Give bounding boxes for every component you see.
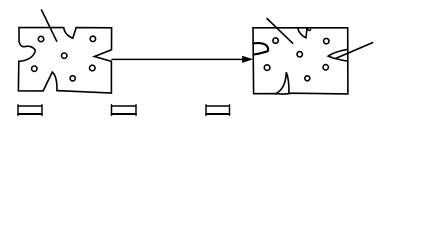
hole A6: [70, 76, 75, 81]
slice B bottom fin: [276, 72, 289, 94]
hole B1: [273, 38, 278, 43]
hole A4: [32, 66, 37, 71]
arrow head: [242, 56, 253, 63]
legend box 2: [112, 105, 137, 115]
cheese slice A outline: [18, 28, 111, 93]
legend box 1: [18, 105, 42, 115]
slice B right-edge notch: [328, 49, 348, 61]
slice B top notch: [298, 28, 307, 38]
hole B4: [264, 65, 270, 71]
hole B2: [324, 38, 329, 43]
cheese slice B outline (continuous rectangle): [253, 28, 348, 94]
hole B3: [297, 52, 302, 57]
hole A5: [90, 65, 96, 71]
hole A3: [61, 53, 66, 58]
slice B left-edge flap (thick): [253, 43, 268, 55]
arrow shaft: [112, 58, 246, 60]
slice B top notch curl: [307, 28, 311, 30]
hole B6: [305, 76, 310, 81]
leader line from slice B right notch: [336, 43, 373, 59]
hole A1: [38, 36, 43, 41]
slash through slice A corner: [42, 10, 57, 41]
legend box 3: [206, 105, 230, 115]
hole B5: [323, 65, 328, 70]
slash through slice B corner: [267, 19, 293, 44]
hole A2: [90, 36, 95, 41]
